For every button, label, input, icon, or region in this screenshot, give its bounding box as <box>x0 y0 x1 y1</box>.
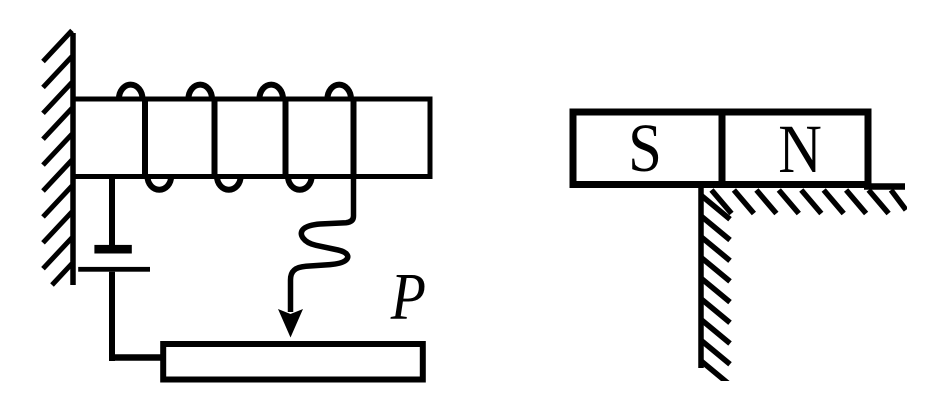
svg-text:P: P <box>390 258 426 333</box>
svg-text:S: S <box>628 110 662 186</box>
svg-text:N: N <box>778 111 822 188</box>
